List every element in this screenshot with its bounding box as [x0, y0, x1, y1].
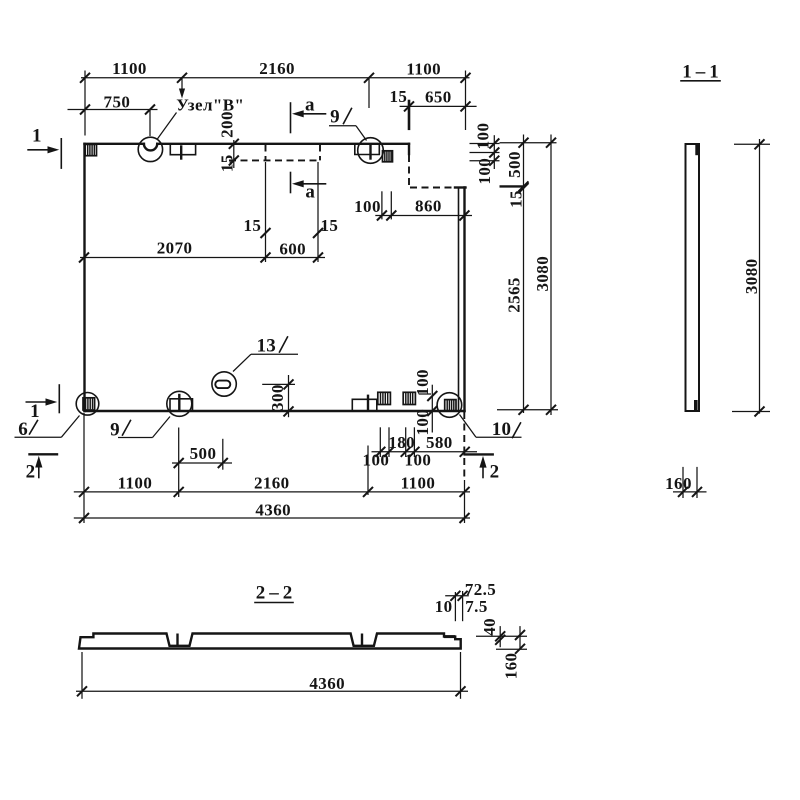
dim 100-860 [354, 191, 472, 220]
hidden opening dashed verticals [266, 145, 321, 161]
dim 500 bottom [172, 428, 232, 498]
leader 13 [233, 336, 298, 372]
dim 40 section 2-2 [476, 618, 527, 649]
section marker 2 bottom-right [464, 412, 499, 483]
svg-text:2–2: 2–2 [256, 583, 297, 604]
svg-text:100: 100 [413, 369, 432, 396]
svg-text:1100: 1100 [112, 59, 147, 78]
svg-text:15: 15 [243, 216, 261, 235]
dim 300 vertical [262, 375, 295, 417]
notch corner vertical solid [408, 144, 410, 154]
dim chain 100-180-100-580 [363, 427, 477, 469]
leader Uzel B [157, 96, 244, 140]
dim chain 100-100 right [470, 123, 500, 185]
title 1-1 [681, 62, 723, 83]
svg-text:100: 100 [474, 123, 493, 150]
svg-text:2: 2 [26, 462, 36, 483]
svg-text:750: 750 [104, 92, 131, 111]
notch bottom-left [170, 395, 193, 411]
dim 4360 plan [74, 500, 470, 523]
section marker 1 top-left [28, 126, 61, 169]
dim 100-100 vertical bottom right [413, 369, 438, 436]
panel right edge inner [458, 189, 460, 412]
svg-text:3080: 3080 [533, 256, 552, 292]
panel left edge [83, 144, 85, 411]
callout circle 10 [437, 393, 462, 418]
dim row top 1100-2160-1100 [80, 59, 471, 136]
leader 9 bottom [110, 417, 170, 441]
panel bottom edge [85, 410, 465, 412]
dim chain 500-15-2565 [500, 135, 529, 415]
anchor plate bottom-mid2 [403, 392, 415, 404]
hidden opening dashed horizontal [229, 159, 320, 161]
leader 6 [15, 416, 80, 441]
section marker a bottom [291, 173, 326, 203]
anchor plate top-left [85, 144, 96, 155]
callout circle 13 with slot [212, 372, 236, 396]
notch hidden vertical dashed [408, 155, 410, 188]
section 1-1 body [686, 144, 700, 411]
svg-text:160: 160 [502, 653, 521, 680]
svg-text:1: 1 [32, 126, 42, 147]
lifting loop recess arc [144, 144, 157, 151]
anchor plate bottom-left [83, 398, 95, 410]
panel outline top edge [85, 143, 410, 145]
svg-text:40: 40 [480, 618, 499, 636]
callout circle 6 [76, 393, 99, 416]
svg-text:9: 9 [330, 107, 340, 128]
svg-text:15: 15 [389, 87, 407, 106]
svg-text:650: 650 [425, 87, 452, 106]
svg-text:15: 15 [320, 216, 338, 235]
notch top-right [355, 144, 380, 159]
svg-text:1–1: 1–1 [682, 62, 723, 83]
step corner solid [455, 186, 466, 188]
anchor plate top-right [383, 151, 393, 162]
notch hidden horizontal dashed [410, 187, 455, 189]
svg-text:10: 10 [435, 597, 453, 616]
svg-text:1: 1 [30, 401, 40, 422]
svg-text:2565: 2565 [505, 277, 524, 313]
svg-text:200: 200 [217, 111, 236, 138]
svg-text:160: 160 [665, 474, 692, 493]
svg-text:a: a [305, 95, 315, 116]
svg-text:13: 13 [257, 336, 276, 357]
svg-text:500: 500 [190, 444, 217, 463]
svg-text:15: 15 [218, 154, 237, 172]
svg-text:4360: 4360 [309, 674, 345, 693]
svg-text:72.5: 72.5 [465, 580, 496, 599]
svg-text:100: 100 [405, 450, 432, 469]
svg-text:860: 860 [415, 197, 442, 216]
svg-text:100: 100 [413, 409, 432, 436]
svg-text:2160: 2160 [259, 59, 295, 78]
dim 160 section 1-1 [665, 467, 706, 498]
panel right edge outer [463, 188, 465, 412]
section marker a top [291, 95, 326, 133]
svg-text:a: a [305, 182, 315, 203]
dim 750 [68, 92, 158, 136]
svg-text:180: 180 [388, 433, 415, 452]
callout circle 9 bottom [167, 391, 192, 416]
anchor plate bottom-right [445, 400, 456, 411]
svg-text:4360: 4360 [255, 500, 291, 519]
section marker 1 bottom-left [26, 385, 59, 422]
svg-text:600: 600 [279, 240, 306, 259]
svg-text:100: 100 [363, 450, 390, 469]
svg-text:3080: 3080 [742, 258, 761, 294]
anchor plate bottom-mid1 [378, 392, 391, 404]
section 2-2 body [79, 634, 461, 649]
title 2-2 [255, 583, 296, 604]
svg-text:300: 300 [268, 384, 287, 411]
svg-text:2: 2 [490, 462, 500, 483]
notch bottom-right [352, 396, 377, 411]
dim row bottom 1100-2160-1100 [74, 413, 470, 523]
dim 200-15 vertical [217, 111, 239, 172]
svg-text:1100: 1100 [118, 473, 153, 492]
dim 15-650 top right [389, 87, 476, 130]
leader 9 top [329, 107, 367, 141]
leader 10 [460, 415, 522, 441]
svg-text:15: 15 [506, 190, 525, 208]
dim 160 section 2-2 [502, 626, 525, 679]
dim 2070-600 [79, 162, 338, 263]
section marker 2 bottom-left [26, 454, 57, 482]
svg-text:1100: 1100 [406, 60, 441, 79]
svg-text:100: 100 [475, 158, 494, 185]
dim 3080 plan [497, 135, 558, 416]
callout circle 9 top [358, 138, 384, 164]
callout circle Uzel B [138, 137, 162, 161]
svg-text:7.5: 7.5 [465, 597, 487, 616]
svg-text:100: 100 [354, 197, 381, 216]
dim 4360 section 2-2 [76, 652, 468, 699]
dim 3080 section 1-1 [732, 139, 770, 417]
svg-text:2160: 2160 [254, 473, 290, 492]
svg-text:1100: 1100 [401, 473, 436, 492]
svg-text:2070: 2070 [157, 239, 193, 258]
dim 10-7.5-72.5 section 2-2 [435, 580, 496, 621]
notch top-left [170, 144, 195, 159]
svg-text:580: 580 [426, 433, 453, 452]
svg-text:500: 500 [505, 151, 524, 178]
